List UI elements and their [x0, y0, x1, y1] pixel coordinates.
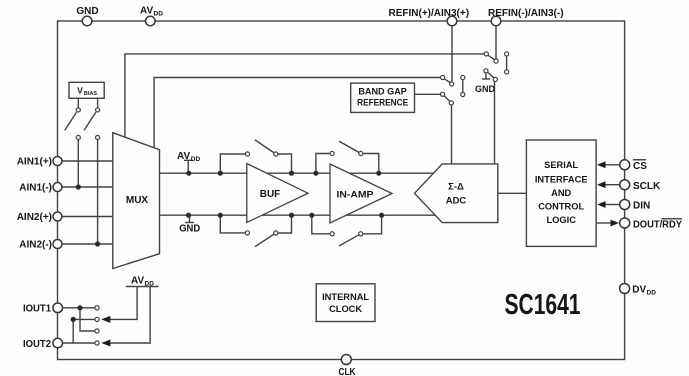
chip boundary: [58, 21, 625, 360]
svg-text:DD: DD: [191, 156, 201, 163]
svg-text:AV: AV: [131, 276, 144, 287]
sigma-delta ADC: [415, 164, 498, 223]
pin GND: [82, 16, 92, 26]
pin IOUT2: [53, 338, 63, 348]
svg-text:AIN1(+): AIN1(+): [17, 157, 52, 168]
DIN line: [605, 204, 620, 206]
vbias switch arms: [65, 112, 77, 130]
wire AIN2(-): [58, 243, 113, 245]
svg-text:CS: CS: [633, 161, 647, 172]
wire B: vertical + horizontal to ref switch: [154, 78, 441, 148]
band gap output wire: [415, 93, 441, 95]
IOUT row1 to row3 vertical: [80, 308, 95, 331]
svg-text:REFERENCE: REFERENCE: [357, 98, 408, 108]
pin REFIN(+)/AIN3(+): [447, 16, 457, 26]
svg-text:IOUT1: IOUT1: [23, 304, 51, 315]
svg-text:CLOCK: CLOCK: [329, 304, 362, 314]
svg-text:GND: GND: [179, 224, 200, 235]
DOUT arrow: [611, 220, 620, 227]
svg-text:BAND GAP: BAND GAP: [358, 86, 407, 96]
pin DIN: [620, 200, 630, 210]
svg-text:BUF: BUF: [260, 189, 281, 200]
svg-text:IN-AMP: IN-AMP: [337, 190, 375, 201]
jumper J2 (closed switch): [462, 80, 464, 93]
REFIN(+) vertical lower to ADC: [451, 105, 453, 164]
svg-text:DV: DV: [632, 285, 646, 296]
wire MUX output bottom rail: [160, 214, 439, 216]
overlines: [633, 160, 682, 219]
pin AVDD: [146, 16, 156, 26]
svg-text:AIN2(+): AIN2(+): [17, 212, 52, 223]
svg-text:GND: GND: [76, 6, 98, 17]
switch arm wireA to REFIN(-): [488, 55, 494, 59]
svg-text:AND: AND: [551, 188, 571, 198]
buffer BUF: [247, 164, 308, 223]
wire MUX output top rail: [160, 172, 439, 174]
svg-text:INTERFACE: INTERFACE: [535, 175, 588, 185]
wire A: vertical + horizontal to ref switch: [125, 54, 484, 137]
svg-text:AV: AV: [177, 151, 190, 162]
pin REFIN(-)/AIN3(-): [491, 16, 501, 26]
SCLK line: [605, 184, 620, 186]
IOUT row2 arrow: [101, 316, 110, 323]
pin DOUT/RDY: [620, 218, 630, 228]
REFIN(+) vertical upper: [451, 26, 453, 82]
wire AIN1(+): [58, 160, 113, 162]
pin DVDD: [620, 284, 630, 294]
v2 lower vertical to ADC: [494, 82, 496, 164]
junction dots: [71, 171, 385, 322]
band gap reference box: [351, 83, 415, 112]
svg-text:SERIAL: SERIAL: [544, 160, 578, 170]
wire AIN2(+): [58, 216, 113, 218]
pin AIN2(-): [53, 240, 62, 249]
IOUT row2 wire from arrow to AVdd: [110, 287, 137, 320]
wire AIN1(-): [58, 186, 113, 188]
vbias switch verticals to AIN wires: [77, 140, 79, 188]
pin AIN2(+): [53, 212, 62, 221]
svg-text:DD: DD: [647, 290, 657, 297]
jumper J1 (closed switch): [506, 56, 508, 70]
svg-text:CLK: CLK: [339, 367, 357, 376]
RDY overline: [662, 218, 683, 220]
IOUT row1: [62, 307, 95, 309]
pin circles: [53, 16, 630, 364]
IOUT row4: [62, 342, 95, 344]
ADC to serial box wire: [498, 192, 527, 194]
GND symbol tick: [485, 73, 487, 79]
svg-text:DD: DD: [145, 281, 155, 288]
DOUT line: [596, 222, 611, 224]
svg-text:INTERNAL: INTERNAL: [322, 292, 369, 302]
svg-text:V: V: [77, 85, 83, 95]
svg-text:AIN2(-): AIN2(-): [19, 240, 52, 251]
IOUT row4 wire from arrow to AVdd: [110, 287, 150, 344]
svg-text:ADC: ADC: [446, 196, 467, 207]
serial interface and control logic box: [526, 140, 596, 246]
pin SCLK: [620, 180, 630, 190]
BUF top bypass: [220, 154, 245, 173]
svg-text:SCLK: SCLK: [633, 181, 661, 192]
switch arm bandgap to v1: [444, 96, 450, 102]
switch terminal open circles: [76, 52, 509, 345]
arrowheads: [101, 161, 619, 346]
CS overline: [633, 159, 646, 161]
IN-AMP top bypass: [316, 154, 330, 174]
svg-text:DD: DD: [154, 11, 164, 18]
svg-text:DIN: DIN: [633, 201, 650, 212]
CS arrow: [597, 161, 606, 168]
svg-text:Σ-Δ: Σ-Δ: [448, 182, 464, 193]
svg-text:LOGIC: LOGIC: [546, 215, 576, 225]
svg-text:AIN1(-): AIN1(-): [19, 183, 52, 194]
pin CS: [620, 160, 630, 170]
mux U-MUX: [113, 133, 160, 269]
BUF bottom bypass: [220, 215, 245, 233]
svg-text:GND: GND: [475, 84, 496, 94]
vbias box: [69, 82, 104, 98]
internal clock box: [316, 284, 375, 322]
switch arm wireB to v1: [444, 79, 450, 83]
IOUT row2 vertical to IOUT2 wire: [72, 319, 74, 343]
AVdd tick at MUX output: [184, 159, 193, 161]
vbias leads: [77, 98, 79, 108]
IOUT row4 arrow: [101, 340, 110, 347]
svg-text:MUX: MUX: [126, 195, 149, 206]
IN-AMP bottom bypass: [312, 215, 330, 234]
switch arm GND to v2: [488, 72, 494, 78]
svg-text:REFIN(+)/AIN3(+): REFIN(+)/AIN3(+): [389, 8, 470, 19]
svg-text:AV: AV: [140, 6, 153, 17]
svg-text:DOUT/RDY: DOUT/RDY: [633, 220, 682, 231]
GND tick at MUX output: [189, 215, 191, 222]
DIN arrow: [597, 201, 606, 208]
SCLK arrow: [597, 181, 606, 188]
IOUT row2: [73, 318, 95, 320]
pin AIN1(+): [53, 157, 62, 166]
in-amp: [330, 164, 392, 223]
AVdd bar bottom: [126, 286, 158, 288]
pin AIN1(-): [53, 183, 62, 192]
svg-text:CONTROL: CONTROL: [538, 202, 584, 212]
pin CLK: [341, 355, 351, 365]
pin IOUT1: [53, 303, 63, 313]
CS line: [605, 164, 620, 166]
REFIN(-) vertical upper: [495, 26, 497, 59]
svg-text:SC1641: SC1641: [505, 289, 581, 321]
svg-text:BIAS: BIAS: [84, 91, 97, 97]
svg-text:REFIN(-)/AIN3(-): REFIN(-)/AIN3(-): [488, 8, 564, 19]
svg-text:IOUT2: IOUT2: [23, 339, 51, 350]
